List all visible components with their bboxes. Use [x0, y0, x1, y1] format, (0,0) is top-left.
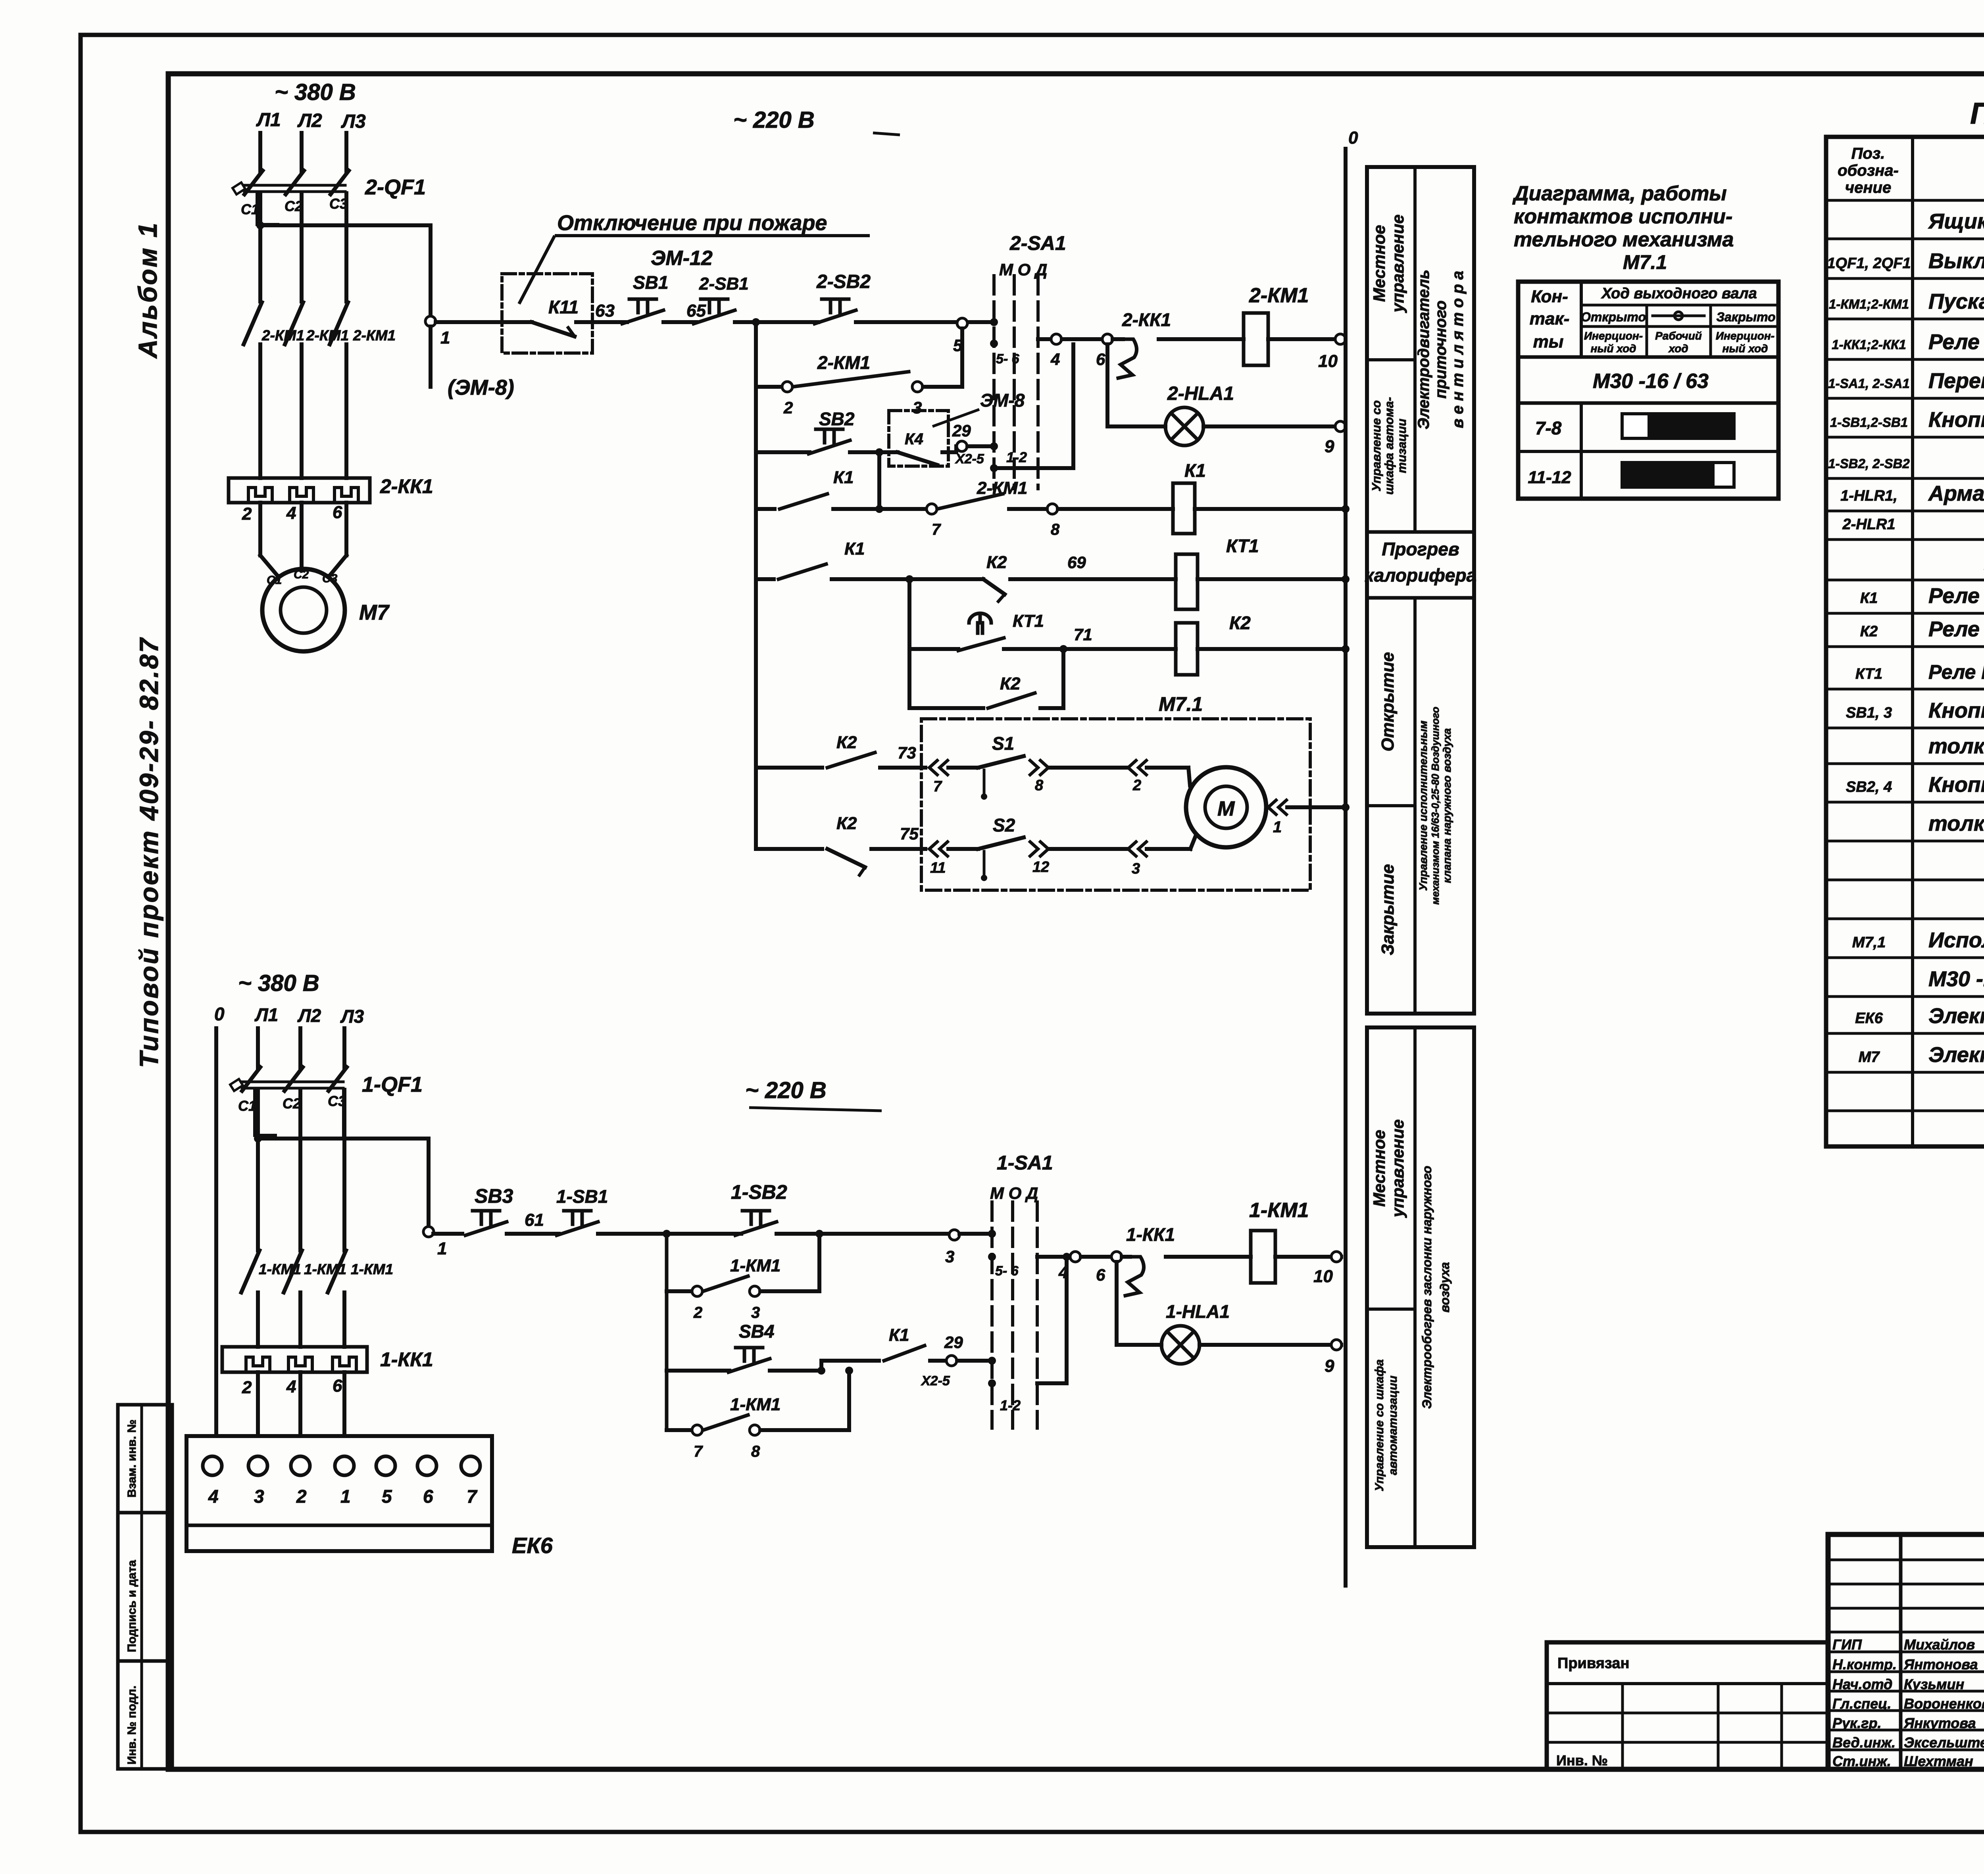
svg-text:~ 380 В: ~ 380 В: [275, 79, 356, 105]
svg-text:Ящик управления Я5115-2474УХЛ4: Ящик управления Я5115-2474УХЛ4-2Б: [1928, 209, 1984, 233]
svg-text:Кузьмин: Кузьмин: [1904, 1676, 1964, 1692]
svg-text:Электронагреватель: Электронагреватель: [1928, 1004, 1984, 1028]
svg-text:М О Д: М О Д: [990, 1184, 1038, 1202]
svg-text:1-КМ1: 1-КМ1: [259, 1261, 301, 1277]
svg-text:1-КК1: 1-КК1: [380, 1348, 433, 1371]
svg-text:Янтонова: Янтонова: [1903, 1656, 1978, 1672]
svg-text:2: 2: [693, 1304, 702, 1321]
svg-text:Л2: Л2: [297, 1005, 321, 1026]
svg-text:Выключатель: Выключатель: [1928, 249, 1984, 273]
svg-text:Инв. №: Инв. №: [1556, 1752, 1608, 1768]
svg-text:(ЭМ-8): (ЭМ-8): [448, 376, 514, 399]
svg-text:М7.1: М7.1: [1159, 693, 1203, 715]
svg-text:7: 7: [467, 1486, 478, 1507]
svg-text:ЭМ-8: ЭМ-8: [980, 390, 1025, 411]
svg-text:1-2: 1-2: [1000, 1397, 1021, 1413]
svg-text:Электродвигатель: Электродвигатель: [1415, 270, 1432, 430]
svg-text:2-SB2: 2-SB2: [816, 271, 871, 292]
svg-text:приточного: приточного: [1432, 300, 1450, 398]
svg-text:2-SB1: 2-SB1: [699, 274, 749, 294]
svg-text:Кнопка КЕ 011У3, исполн. 4: Кнопка КЕ 011У3, исполн. 4: [1928, 773, 1984, 797]
svg-text:1-SВ1: 1-SВ1: [556, 1186, 608, 1207]
svg-text:2: 2: [242, 504, 252, 524]
svg-text:КТ1: КТ1: [1855, 666, 1882, 682]
svg-text:Ход выходного вала: Ход выходного вала: [1601, 285, 1757, 302]
svg-text:Л3: Л3: [340, 1006, 364, 1027]
svg-text:Кнопка: Кнопка: [1928, 408, 1984, 432]
svg-text:4: 4: [1050, 350, 1060, 369]
svg-text:Реле РПУ-2-М3Б222УЗБ, U ~220В: Реле РПУ-2-М3Б222УЗБ, U ~220В: [1928, 617, 1984, 641]
svg-text:Л1: Л1: [254, 1004, 278, 1025]
svg-text:12: 12: [1032, 859, 1049, 876]
svg-text:Рабочий: Рабочий: [1655, 330, 1702, 342]
svg-text:Местное: Местное: [1370, 225, 1388, 302]
svg-text:К2: К2: [836, 733, 857, 752]
svg-text:С2: С2: [283, 1095, 301, 1112]
svg-text:К1: К1: [1860, 590, 1878, 607]
svg-text:Эксельштейн: Эксельштейн: [1904, 1734, 1984, 1751]
svg-text:1-НLА1: 1-НLА1: [1166, 1301, 1230, 1322]
svg-text:М7: М7: [359, 601, 390, 624]
svg-text:8: 8: [1051, 521, 1060, 538]
svg-text:Вороненков: Вороненков: [1904, 1696, 1984, 1712]
svg-text:М7: М7: [1859, 1049, 1880, 1066]
svg-text:Рук.гр.: Рук.гр.: [1832, 1715, 1882, 1731]
svg-text:7: 7: [933, 778, 942, 795]
svg-text:Инерцион-: Инерцион-: [1716, 330, 1774, 342]
svg-text:0: 0: [214, 1004, 225, 1024]
svg-text:3: 3: [945, 1247, 954, 1266]
svg-text:11-12: 11-12: [1528, 468, 1571, 487]
svg-text:2-HLR1: 2-HLR1: [1842, 516, 1895, 533]
svg-text:1-КМ1;2-КМ1: 1-КМ1;2-КМ1: [1829, 297, 1909, 311]
svg-text:Привязан: Привязан: [1557, 1655, 1629, 1672]
svg-text:Закрыто: Закрыто: [1716, 310, 1775, 324]
svg-text:71: 71: [1074, 625, 1092, 644]
svg-text:1-КМ1: 1-КМ1: [304, 1261, 346, 1277]
svg-text:73: 73: [898, 743, 916, 762]
svg-text:1-QF1: 1-QF1: [362, 1073, 423, 1096]
svg-text:Инерцион-: Инерцион-: [1584, 330, 1643, 342]
svg-text:Л1: Л1: [256, 109, 281, 131]
svg-text:29: 29: [944, 1333, 963, 1352]
svg-text:SВ3: SВ3: [475, 1185, 513, 1207]
svg-text:Типовой проект 409-29- 8: Типовой проект 409-29- 82.87: [134, 637, 163, 1068]
svg-text:1-КК1;2-КК1: 1-КК1;2-КК1: [1832, 337, 1906, 352]
svg-text:9: 9: [1325, 437, 1334, 456]
svg-text:1: 1: [1273, 818, 1282, 836]
svg-text:SВ2: SВ2: [819, 409, 855, 429]
svg-text:7-8: 7-8: [1535, 418, 1562, 438]
svg-text:К4: К4: [905, 430, 923, 448]
svg-text:2-КМ1: 2-КМ1: [977, 478, 1027, 498]
svg-text:75: 75: [900, 824, 919, 843]
svg-text:SB1, 3: SB1, 3: [1846, 705, 1892, 721]
svg-text:Прогрев: Прогрев: [1382, 539, 1459, 559]
svg-text:Поз.: Поз.: [1851, 145, 1885, 162]
svg-text:7: 7: [932, 521, 941, 538]
svg-text:ход: ход: [1668, 342, 1688, 355]
svg-text:3: 3: [1132, 860, 1140, 877]
svg-text:6: 6: [333, 503, 342, 522]
svg-text:КТ1: КТ1: [1013, 611, 1044, 631]
svg-text:7: 7: [694, 1443, 703, 1460]
svg-text:ты: ты: [1533, 332, 1564, 351]
svg-text:ный ход: ный ход: [1723, 342, 1768, 355]
svg-text:ный ход: ный ход: [1591, 342, 1636, 355]
svg-text:М30 -16 / 63 - 0,25 -80: М30 -16 / 63 - 0,25 -80: [1928, 967, 1984, 991]
svg-text:5- 6: 5- 6: [996, 351, 1020, 367]
svg-text:Взам. инв. №: Взам. инв. №: [125, 1419, 138, 1498]
svg-text:Кнопка КЕ 011У3 , исполн. 5: Кнопка КЕ 011У3 , исполн. 5: [1928, 699, 1984, 722]
svg-text:Л2: Л2: [297, 110, 322, 131]
svg-text:1-КМ1: 1-КМ1: [351, 1261, 393, 1277]
svg-text:4: 4: [208, 1486, 219, 1507]
svg-text:10: 10: [1318, 351, 1338, 371]
svg-text:9: 9: [1325, 1356, 1334, 1376]
svg-text:С2: С2: [294, 568, 309, 581]
svg-text:М30 -16 / 63: М30 -16 / 63: [1593, 370, 1709, 393]
svg-text:С1: С1: [267, 574, 282, 587]
svg-text:П е р е ч е н ь: П е р е ч е н ь: [1970, 97, 1984, 131]
svg-text:1-SВ2: 1-SВ2: [731, 1181, 787, 1203]
svg-text:тизации: тизации: [1395, 419, 1409, 473]
svg-text:Электрообогрев заслонки нару: Электрообогрев заслонки наружного: [1420, 1166, 1434, 1409]
svg-text:1-КМ1: 1-КМ1: [1249, 1199, 1309, 1222]
svg-text:К2: К2: [836, 814, 857, 833]
svg-text:М7.1: М7.1: [1623, 251, 1667, 273]
svg-text:10: 10: [1313, 1267, 1333, 1286]
svg-text:1-SB2, 2-SB2: 1-SB2, 2-SB2: [1828, 456, 1910, 471]
svg-text:чение: чение: [1845, 179, 1891, 196]
svg-text:1-HLR1,: 1-HLR1,: [1840, 488, 1897, 504]
svg-text:Пускатель: Пускатель: [1928, 290, 1984, 313]
svg-text:2: 2: [296, 1486, 307, 1507]
svg-text:М О Д: М О Д: [999, 260, 1047, 279]
svg-text:1: 1: [440, 328, 450, 348]
svg-text:С1: С1: [241, 201, 259, 217]
svg-text:тельного механизма: тельного механизма: [1514, 228, 1734, 251]
svg-text:2-КМ1: 2-КМ1: [261, 327, 304, 344]
svg-text:Управление со шкафа: Управление со шкафа: [1373, 1359, 1386, 1492]
svg-text:S2: S2: [993, 815, 1015, 835]
svg-text:1QF1, 2QF1: 1QF1, 2QF1: [1827, 255, 1911, 272]
svg-text:8: 8: [1035, 777, 1044, 794]
svg-text:ЕК6: ЕК6: [1855, 1010, 1883, 1027]
svg-text:Местное: Местное: [1370, 1130, 1388, 1207]
svg-text:К11: К11: [548, 297, 579, 317]
svg-text:0: 0: [1348, 128, 1358, 148]
svg-text:автоматизации: автоматизации: [1386, 1376, 1400, 1475]
svg-text:М: М: [1217, 797, 1235, 820]
svg-text:6: 6: [333, 1376, 342, 1396]
svg-text:Михайлов: Михайлов: [1904, 1636, 1975, 1653]
svg-text:С2: С2: [285, 198, 303, 214]
svg-text:М7,1: М7,1: [1852, 934, 1886, 951]
svg-text:ЕК6: ЕК6: [512, 1533, 553, 1558]
svg-text:ГИП: ГИП: [1832, 1636, 1862, 1653]
svg-text:1: 1: [437, 1239, 447, 1258]
svg-text:SB2, 4: SB2, 4: [1846, 779, 1892, 795]
svg-text:С3: С3: [328, 1093, 346, 1109]
svg-text:контактов исполни-: контактов исполни-: [1514, 205, 1732, 228]
svg-text:11: 11: [930, 860, 946, 876]
svg-text:Х2-5: Х2-5: [955, 451, 984, 467]
svg-text:Арматура светосигнальная: Арматура светосигнальная: [1928, 482, 1984, 505]
svg-text:1: 1: [340, 1486, 351, 1507]
svg-text:Реле РПУ-2-3Б220УЗБ, U ~220В: Реле РПУ-2-3Б220УЗБ, U ~220В: [1928, 584, 1984, 608]
svg-text:толк. красный: толк. красный: [1928, 734, 1984, 758]
svg-text:К2: К2: [1860, 623, 1878, 640]
svg-text:3: 3: [751, 1304, 760, 1321]
svg-text:Открытие: Открытие: [1378, 652, 1398, 752]
svg-text:4: 4: [286, 1377, 296, 1396]
svg-text:5: 5: [953, 336, 963, 355]
svg-text:управление: управление: [1388, 1119, 1407, 1218]
svg-text:65: 65: [686, 301, 706, 321]
svg-text:Инв. № подл.: Инв. № подл.: [125, 1686, 138, 1765]
svg-text:2-QF1: 2-QF1: [365, 175, 426, 199]
svg-text:клапана наружного воздуха: клапана наружного воздуха: [1441, 728, 1453, 883]
svg-text:69: 69: [1067, 553, 1086, 572]
svg-text:1-SА1: 1-SА1: [997, 1152, 1053, 1174]
svg-text:Вед.инж.: Вед.инж.: [1832, 1734, 1896, 1751]
svg-text:шкафа автома-: шкафа автома-: [1382, 397, 1396, 495]
svg-text:2-КК1: 2-КК1: [380, 475, 433, 497]
svg-text:управление: управление: [1388, 215, 1407, 313]
svg-text:Ст.инж.: Ст.инж.: [1832, 1753, 1891, 1769]
svg-text:Реле РВП72-3221-00У4, U ~220В: Реле РВП72-3221-00У4, U ~220В,50Гц: [1928, 661, 1984, 683]
svg-text:SВ4: SВ4: [739, 1321, 774, 1342]
svg-text:4: 4: [286, 503, 296, 523]
svg-text:Альбом 1: Альбом 1: [133, 221, 162, 359]
svg-text:5- 6: 5- 6: [995, 1263, 1019, 1279]
svg-text:1-SB1,2-SB1: 1-SB1,2-SB1: [1830, 415, 1908, 430]
svg-text:2-КК1: 2-КК1: [1122, 309, 1171, 330]
svg-text:в е н т и л я т о р а: в е н т и л я т о р а: [1449, 271, 1467, 428]
svg-text:2: 2: [1132, 777, 1141, 794]
svg-text:толк. черный: толк. черный: [1928, 812, 1984, 835]
svg-text:63: 63: [595, 301, 615, 321]
svg-text:Н.контр.: Н.контр.: [1832, 1656, 1897, 1672]
svg-text:2: 2: [783, 398, 793, 417]
svg-text:6: 6: [1096, 350, 1105, 369]
svg-text:~ 220 В: ~ 220 В: [745, 1077, 827, 1103]
svg-text:К2: К2: [1229, 613, 1251, 633]
svg-text:Гл.спец.: Гл.спец.: [1832, 1696, 1891, 1712]
svg-text:так-: так-: [1530, 309, 1570, 328]
svg-text:2: 2: [242, 1378, 252, 1397]
svg-text:обозна-: обозна-: [1838, 162, 1899, 179]
svg-text:К2: К2: [986, 553, 1007, 572]
svg-text:Переключатель: Переключатель: [1928, 369, 1984, 393]
svg-text:воздуха: воздуха: [1438, 1262, 1452, 1312]
svg-text:Л3: Л3: [341, 111, 366, 132]
svg-text:Исполнительный механизм: Исполнительный механизм: [1928, 928, 1984, 952]
svg-text:1-SA1, 2-SA1: 1-SA1, 2-SA1: [1828, 376, 1909, 391]
svg-text:Закрытие: Закрытие: [1378, 864, 1398, 955]
svg-text:1-2: 1-2: [1006, 449, 1027, 465]
svg-text:2-НLА1: 2-НLА1: [1167, 383, 1234, 404]
svg-text:Шехтман: Шехтман: [1904, 1753, 1973, 1769]
svg-text:КТ1: КТ1: [1226, 536, 1259, 556]
svg-text:Подпись и дата: Подпись и дата: [125, 1560, 138, 1652]
svg-text:2-КМ1: 2-КМ1: [817, 352, 870, 373]
svg-text:1-КМ1: 1-КМ1: [730, 1395, 781, 1414]
svg-text:5: 5: [382, 1486, 392, 1507]
svg-text:Отключение при пожаре: Отключение при пожаре: [557, 211, 827, 235]
svg-text:8: 8: [751, 1443, 760, 1460]
svg-text:Х2-5: Х2-5: [921, 1373, 950, 1388]
svg-text:Электродвигатель: Электродвигатель: [1928, 1043, 1984, 1067]
svg-text:К1: К1: [833, 468, 854, 487]
svg-text:2-КМ1: 2-КМ1: [353, 327, 396, 344]
svg-text:1-КМ1: 1-КМ1: [730, 1256, 781, 1275]
svg-text:29: 29: [952, 421, 971, 440]
svg-text:К1: К1: [889, 1325, 909, 1345]
svg-text:1-КК1: 1-КК1: [1126, 1224, 1175, 1245]
svg-text:С3: С3: [322, 572, 338, 585]
svg-text:SB1: SB1: [633, 272, 668, 293]
svg-text:К1: К1: [844, 539, 865, 559]
svg-text:3: 3: [254, 1486, 264, 1507]
svg-text:6: 6: [423, 1486, 433, 1507]
svg-text:Реле: Реле: [1928, 330, 1980, 354]
svg-text:С3: С3: [329, 196, 348, 212]
svg-text:Кон-: Кон-: [1531, 287, 1568, 306]
svg-text:3: 3: [913, 398, 922, 417]
svg-text:Нач.отд: Нач.отд: [1832, 1676, 1892, 1692]
svg-text:S1: S1: [992, 733, 1014, 754]
svg-text:С1: С1: [238, 1098, 256, 1114]
svg-text:2-КМ1: 2-КМ1: [306, 327, 349, 344]
svg-text:Янкутова: Янкутова: [1903, 1715, 1976, 1731]
svg-text:ЭМ-12: ЭМ-12: [651, 247, 713, 270]
svg-text:калорифера: калорифера: [1365, 565, 1476, 586]
svg-text:механизмом 16/63-0,25-80 Возду: механизмом 16/63-0,25-80 Воздушного: [1429, 707, 1441, 904]
svg-text:~ 380 В: ~ 380 В: [238, 970, 319, 996]
svg-text:К2: К2: [1000, 674, 1021, 693]
svg-text:~ 220 В: ~ 220 В: [733, 107, 815, 133]
svg-text:2-КМ1: 2-КМ1: [1249, 284, 1309, 307]
svg-text:2-SA1: 2-SA1: [1009, 232, 1066, 254]
svg-text:Открыто: Открыто: [1581, 310, 1646, 324]
svg-text:Диаграмма, работы: Диаграмма, работы: [1512, 182, 1727, 205]
svg-text:К1: К1: [1184, 460, 1206, 481]
svg-text:Управление исполнительным: Управление исполнительным: [1417, 720, 1429, 891]
svg-text:6: 6: [1096, 1265, 1105, 1284]
svg-text:61: 61: [525, 1210, 544, 1230]
svg-text:Управление со: Управление со: [1369, 400, 1383, 492]
svg-text:4: 4: [1058, 1263, 1068, 1282]
